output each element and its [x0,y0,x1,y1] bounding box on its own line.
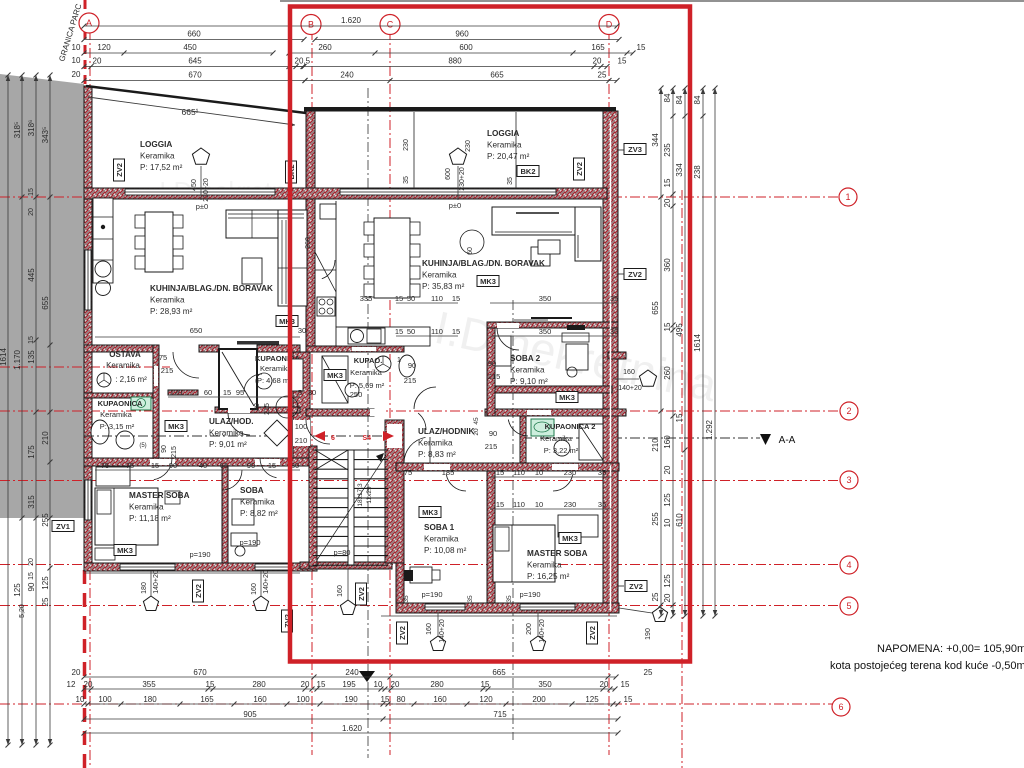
svg-text:110: 110 [431,294,443,303]
svg-text:90: 90 [489,429,497,438]
svg-text:195: 195 [342,680,356,689]
svg-text:OSTAVA: OSTAVA [109,350,141,359]
svg-text:175: 175 [27,445,36,459]
svg-text:65: 65 [220,461,228,470]
svg-text:MK3: MK3 [168,422,184,431]
svg-text:140+20: 140+20 [439,619,446,643]
svg-text:3: 3 [846,475,851,485]
svg-text:15: 15 [637,43,646,52]
svg-text:250: 250 [350,390,363,399]
svg-text:334: 334 [675,163,684,177]
svg-text:P: 17,52 m²: P: 17,52 m² [140,163,183,172]
svg-text:230: 230 [465,140,472,152]
svg-text:30: 30 [298,326,306,335]
svg-text:11x29: 11x29 [366,486,373,504]
svg-text:ULAZ/HODNIK: ULAZ/HODNIK [418,427,474,436]
svg-text:120: 120 [479,695,493,704]
svg-text:90: 90 [408,361,416,370]
svg-text:P: 8,82 m²: P: 8,82 m² [240,509,278,518]
svg-text:15: 15 [381,695,390,704]
svg-text:125: 125 [41,576,50,590]
svg-text:905: 905 [243,710,257,719]
svg-text:35: 35 [507,177,514,185]
svg-text:1.620: 1.620 [341,16,362,25]
svg-text:SOBA: SOBA [240,486,264,495]
svg-text:20: 20 [72,70,81,79]
svg-text:BK2: BK2 [520,167,535,176]
svg-text:p±0: p±0 [196,202,208,211]
svg-text:20: 20 [593,57,602,66]
svg-text:75: 75 [126,461,134,470]
svg-text:215: 215 [161,366,174,375]
svg-text:15: 15 [496,468,504,477]
svg-text:B: B [308,20,314,30]
svg-text:110: 110 [513,500,525,509]
svg-text:15: 15 [28,572,35,580]
svg-text:100: 100 [296,695,310,704]
svg-text:160: 160 [426,623,433,635]
svg-text:160: 160 [623,369,635,376]
svg-text:180: 180 [141,582,148,594]
svg-text:95: 95 [236,388,244,397]
svg-text:20: 20 [28,558,35,566]
svg-text:SOBA 2: SOBA 2 [510,354,541,363]
svg-text:Keramika: Keramika [260,364,293,373]
svg-text:35: 35 [403,176,410,184]
svg-text:1614: 1614 [0,348,8,366]
svg-text:MK3: MK3 [562,534,578,543]
svg-text:P: 16,25 m²: P: 16,25 m² [527,572,570,581]
svg-text:P: 5,69 m²: P: 5,69 m² [350,381,385,390]
svg-text:15: 15 [621,680,630,689]
svg-text:KUPAO.: KUPAO. [354,356,383,365]
svg-text:p=80: p=80 [334,548,351,557]
svg-text:260: 260 [663,366,672,380]
svg-text:90: 90 [488,359,496,368]
svg-text:84: 84 [663,93,672,102]
svg-text:655: 655 [41,296,50,310]
svg-text:20: 20 [391,680,400,689]
svg-text:ZV3: ZV3 [628,145,642,154]
svg-text:715: 715 [493,710,507,719]
svg-text:165: 165 [200,695,214,704]
svg-text:35: 35 [598,468,606,477]
svg-text:(5): (5) [139,443,146,449]
svg-text:50: 50 [407,294,415,303]
svg-text:P: 3,22 m²: P: 3,22 m² [544,446,579,455]
svg-text:4: 4 [846,560,851,570]
svg-text:355: 355 [142,680,156,689]
svg-text:335: 335 [360,294,373,303]
svg-text:25: 25 [651,592,660,601]
svg-text:260: 260 [305,237,312,249]
svg-text:600: 600 [459,43,473,52]
svg-text:215: 215 [404,376,417,385]
svg-text:30: 30 [308,388,316,397]
svg-text:P: 9,10 m²: P: 9,10 m² [510,377,548,386]
svg-text:ZV2: ZV2 [115,163,124,177]
svg-text:Keramika: Keramika [540,434,573,443]
svg-text:1.620: 1.620 [342,724,363,733]
svg-text:A-A: A-A [779,435,796,446]
svg-text:60: 60 [204,388,212,397]
svg-text:160: 160 [253,695,267,704]
svg-text:5: 5 [846,601,851,611]
svg-text:p=190: p=190 [239,538,260,547]
svg-text:ZV2: ZV2 [194,584,203,598]
svg-text:20: 20 [84,680,93,689]
svg-text:495: 495 [675,323,684,337]
svg-text:Keramika: Keramika [150,296,185,305]
svg-text:LOGGIA: LOGGIA [487,129,519,138]
svg-text:15: 15 [317,680,326,689]
svg-text:12: 12 [67,680,76,689]
svg-text:215: 215 [488,372,501,381]
svg-text:MK3: MK3 [480,277,496,286]
svg-text:230+20: 230+20 [459,167,466,191]
svg-text:MK3: MK3 [279,317,295,326]
svg-text:360: 360 [663,258,672,272]
svg-text:P: 35,83 m²: P: 35,83 m² [422,282,465,291]
svg-text:318⁶: 318⁶ [27,120,36,137]
svg-text:90: 90 [27,582,36,591]
svg-text:880: 880 [448,57,462,66]
svg-text:215: 215 [485,442,498,451]
svg-text:665: 665 [490,71,504,80]
svg-text:p=190: p=190 [189,550,210,559]
svg-text:P: 4,68 m²: P: 4,68 m² [257,376,292,385]
svg-text:670: 670 [188,71,202,80]
svg-text:15: 15 [28,188,35,196]
svg-text:15: 15 [151,461,159,470]
svg-text:P: 9,01 m²: P: 9,01 m² [209,440,247,449]
svg-text:35: 35 [598,500,606,509]
svg-text:KUPAONICA: KUPAONICA [98,399,143,408]
svg-text:20: 20 [28,208,35,216]
svg-text:40: 40 [199,461,207,470]
svg-text:200: 200 [532,695,546,704]
svg-text:p±0: p±0 [449,201,461,210]
svg-text:20: 20 [72,668,81,677]
svg-text:15: 15 [206,680,215,689]
svg-text:ZV1: ZV1 [56,522,70,531]
svg-text:185: 185 [442,468,455,477]
svg-text:P: 3,15 m²: P: 3,15 m² [100,422,135,431]
svg-text:255: 255 [41,513,50,527]
svg-text:140+20: 140+20 [539,619,546,643]
svg-text:84: 84 [693,95,702,104]
svg-text:665¹: 665¹ [181,107,198,117]
svg-text:210: 210 [651,438,660,452]
svg-text:125: 125 [13,583,22,597]
svg-text:20: 20 [663,465,672,474]
svg-text:215: 215 [171,446,178,458]
svg-text:80: 80 [397,695,406,704]
svg-text:10: 10 [76,695,85,704]
svg-text:kota postojećeg terena kod kuć: kota postojećeg terena kod kuće -0,50m [830,660,1024,672]
svg-text:25: 25 [598,71,607,80]
svg-text:Keramika: Keramika [350,368,383,377]
svg-text:125: 125 [585,695,599,704]
svg-text:P: 20,47 m²: P: 20,47 m² [487,152,530,161]
svg-text:: 2,16 m²: : 2,16 m² [115,375,147,384]
svg-text:Keramika: Keramika [100,410,133,419]
svg-text:20: 20 [663,593,672,602]
svg-text:15: 15 [395,294,403,303]
svg-text:210: 210 [41,431,50,445]
svg-text:260: 260 [318,43,332,52]
svg-text:SOBA 1: SOBA 1 [424,523,455,532]
svg-text:p=190: p=190 [519,590,540,599]
svg-text:Keramika: Keramika [510,366,545,375]
svg-text:35: 35 [610,294,618,303]
svg-text:670: 670 [193,668,207,677]
svg-text:650: 650 [190,326,203,335]
svg-text:230: 230 [564,500,577,509]
svg-text:20: 20 [663,198,672,207]
svg-text:10: 10 [374,680,383,689]
svg-text:6: 6 [838,702,843,712]
svg-text:S4: S4 [362,435,371,442]
svg-text:Keramika: Keramika [527,561,562,570]
svg-text:445: 445 [27,268,36,282]
svg-text:ZV2: ZV2 [588,626,597,640]
svg-text:KUHINJA/BLAG./DN. BORAVAK: KUHINJA/BLAG./DN. BORAVAK [150,284,273,293]
svg-text:210: 210 [295,436,308,445]
svg-text:20: 20 [301,680,310,689]
svg-text:10: 10 [72,43,81,52]
svg-text:Keramika: Keramika [418,439,453,448]
svg-text:645: 645 [188,57,202,66]
svg-text:230: 230 [564,468,577,477]
svg-text:215: 215 [264,403,271,415]
svg-text:Keramika: Keramika [487,141,522,150]
svg-text:160: 160 [337,585,344,597]
svg-text:50: 50 [407,327,415,336]
svg-text:125: 125 [663,493,672,507]
svg-text:D: D [606,20,613,30]
svg-text:230: 230 [403,139,410,151]
svg-text:255: 255 [651,512,660,526]
svg-text:125: 125 [663,574,672,588]
svg-text:15: 15 [28,336,35,344]
svg-text:1614: 1614 [693,334,702,352]
svg-text:35: 35 [467,595,474,603]
svg-text:350: 350 [539,327,552,336]
svg-text:2: 2 [846,406,851,416]
svg-text:KUPAONICA 2: KUPAONICA 2 [545,422,596,431]
svg-text:660: 660 [187,30,201,39]
svg-text:p=190: p=190 [421,590,442,599]
svg-text:20: 20 [473,428,480,436]
svg-text:280: 280 [430,680,444,689]
svg-text:180: 180 [143,695,157,704]
svg-text:15: 15 [663,178,672,187]
svg-text:655: 655 [651,301,660,315]
svg-text:KUHINJA/BLAG./DN. BORAVAK: KUHINJA/BLAG./DN. BORAVAK [422,259,545,268]
svg-text:LOGGIA: LOGGIA [140,140,172,149]
svg-text:120: 120 [97,43,111,52]
svg-text:35: 35 [610,327,618,336]
svg-text:15: 15 [496,500,504,509]
svg-text:80: 80 [254,403,261,411]
svg-text:450: 450 [183,43,197,52]
svg-text:90: 90 [161,445,168,453]
svg-text:NAPOMENA: +0,00= 105,90m n.v.: NAPOMENA: +0,00= 105,90m n.v. [877,643,1024,655]
svg-text:84: 84 [675,95,684,104]
svg-text:ZV2: ZV2 [398,626,407,640]
svg-text:450: 450 [191,179,198,191]
svg-text:10: 10 [663,518,672,527]
svg-text:100: 100 [295,422,308,431]
svg-text:100: 100 [98,695,112,704]
svg-text:5,20: 5,20 [19,604,26,618]
svg-text:140+20: 140+20 [153,570,160,594]
svg-text:C: C [387,20,394,30]
svg-text:ULAZ/HOD.: ULAZ/HOD. [209,417,254,426]
svg-text:135: 135 [27,350,36,364]
svg-text:10: 10 [535,500,543,509]
svg-text:A: A [86,18,92,28]
svg-text:P: 28,93 m²: P: 28,93 m² [150,307,193,316]
svg-text:665: 665 [492,668,506,677]
svg-text:280: 280 [252,680,266,689]
svg-text:20: 20 [93,57,102,66]
svg-text:315: 315 [27,495,36,509]
svg-text:1.292: 1.292 [705,419,714,440]
svg-text:165: 165 [591,43,605,52]
svg-text:ZV2: ZV2 [575,162,584,176]
svg-text:Keramika: Keramika [209,429,244,438]
svg-text:5: 5 [298,388,302,397]
svg-text:343⁵: 343⁵ [41,127,50,144]
svg-text:MK3: MK3 [327,371,343,380]
svg-text:1: 1 [397,357,401,364]
svg-text:15: 15 [618,57,627,66]
svg-text:110: 110 [431,327,443,336]
svg-text:1: 1 [845,192,850,202]
svg-text:P: 10,08 m²: P: 10,08 m² [424,546,467,555]
svg-text:230+20: 230+20 [203,178,210,202]
svg-text:140+20: 140+20 [618,385,642,392]
svg-text:90: 90 [247,461,255,470]
svg-text:15: 15 [395,327,403,336]
svg-text:610: 610 [675,513,684,527]
svg-text:6: 6 [331,435,335,442]
svg-text:160: 160 [251,583,258,595]
svg-text:240: 240 [340,71,354,80]
svg-text:75: 75 [404,468,412,477]
svg-text:600: 600 [445,168,452,180]
svg-text:190: 190 [645,628,652,640]
svg-text:120: 120 [170,388,183,397]
svg-text:960: 960 [455,30,469,39]
svg-text:15: 15 [452,327,460,336]
svg-text:75: 75 [159,353,167,362]
svg-text:35: 35 [506,595,513,603]
svg-text:35: 35 [403,595,410,603]
svg-text:Keramika: Keramika [140,152,175,161]
svg-text:10: 10 [72,56,81,65]
svg-text:235: 235 [663,143,672,157]
svg-text:Keramika: Keramika [129,503,164,512]
svg-text:75: 75 [101,461,109,470]
svg-text:MASTER SOBA: MASTER SOBA [527,549,588,558]
svg-text:ZV2: ZV2 [629,582,643,591]
svg-text:Keramika: Keramika [106,361,140,370]
svg-text:25: 25 [41,597,50,606]
svg-text:140+20: 140+20 [263,570,270,594]
svg-text:15: 15 [452,294,460,303]
svg-text:MK3: MK3 [422,508,438,517]
svg-text:15: 15 [223,388,231,397]
svg-text:240: 240 [345,668,359,677]
svg-text:ZV2: ZV2 [357,587,366,601]
svg-text:20: 20 [600,680,609,689]
svg-text:160: 160 [663,435,672,449]
svg-text:MK3: MK3 [117,546,133,555]
svg-text:Keramika: Keramika [240,498,275,507]
svg-text:ZV2: ZV2 [628,270,642,279]
svg-text:350: 350 [539,294,552,303]
svg-text:18x17,3: 18x17,3 [357,483,364,507]
svg-text:15: 15 [268,461,276,470]
svg-text:10: 10 [535,468,543,477]
svg-text:P: 11,18 m²: P: 11,18 m² [129,514,171,523]
svg-text:160: 160 [433,695,447,704]
svg-text:318⁵: 318⁵ [13,122,22,139]
svg-text:15: 15 [663,322,672,331]
svg-text:1.170: 1.170 [13,349,22,370]
svg-text:238: 238 [693,165,702,179]
svg-text:190: 190 [344,695,358,704]
svg-text:P: 8,83 m²: P: 8,83 m² [418,450,456,459]
svg-text:200: 200 [526,623,533,635]
svg-text:15: 15 [624,695,633,704]
svg-text:45: 45 [473,417,480,425]
svg-text:344: 344 [651,133,660,147]
svg-text:110: 110 [513,468,525,477]
svg-text:MK3: MK3 [559,393,575,402]
svg-text:15: 15 [481,680,490,689]
svg-text:90: 90 [169,461,177,470]
svg-text:350: 350 [538,680,552,689]
svg-text:25: 25 [644,668,653,677]
svg-text:15: 15 [675,413,684,422]
svg-text:MASTER SOBA: MASTER SOBA [129,491,190,500]
svg-text:Keramika: Keramika [424,535,459,544]
svg-text:Keramika: Keramika [422,271,457,280]
